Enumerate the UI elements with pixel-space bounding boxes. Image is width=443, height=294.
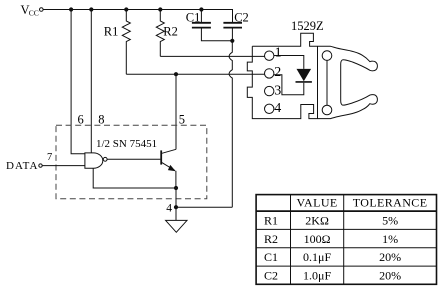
svg-text:R1: R1 bbox=[104, 24, 119, 38]
svg-text:1.0μF: 1.0μF bbox=[303, 268, 331, 282]
svg-text:R1: R1 bbox=[264, 214, 278, 228]
table row C2 bbox=[264, 268, 401, 282]
device pin 2 circle bbox=[265, 69, 274, 78]
wire gate output to base bbox=[107, 158, 160, 160]
svg-text:1: 1 bbox=[275, 46, 282, 61]
node C1 rail junction bbox=[199, 7, 203, 11]
terminal DATA bbox=[39, 164, 42, 167]
device pin 4 circle bbox=[265, 104, 274, 113]
transistor Q1 bbox=[161, 149, 176, 188]
label Vcc bbox=[21, 3, 39, 18]
resistor R2 bbox=[156, 10, 164, 57]
wire gate bottom stub bbox=[93, 168, 176, 188]
gate U1 1/2 SN75451 NAND bbox=[85, 153, 107, 168]
svg-text:1/2 SN 75451: 1/2 SN 75451 bbox=[96, 138, 157, 150]
device 1529Z body right edge bbox=[317, 46, 319, 118]
svg-text:2KΩ: 2KΩ bbox=[305, 214, 329, 228]
node pin6 rail junction bbox=[69, 7, 73, 11]
wire R2 to pin1 bbox=[160, 55, 264, 57]
wire pin4 to C2 ground line bbox=[176, 206, 232, 208]
svg-text:C1: C1 bbox=[264, 250, 278, 264]
svg-text:6: 6 bbox=[78, 113, 84, 127]
capacitor C1 bbox=[192, 10, 232, 41]
power Vcc terminal bbox=[40, 8, 44, 12]
wire emitter to pin4 bbox=[175, 188, 177, 220]
svg-text:VALUE: VALUE bbox=[297, 196, 338, 210]
svg-text:2: 2 bbox=[274, 65, 281, 80]
table grid bbox=[256, 195, 436, 285]
svg-text:TOLERANCE: TOLERANCE bbox=[353, 196, 428, 210]
node R1 rail junction bbox=[124, 7, 128, 11]
diode D1 bbox=[296, 69, 312, 82]
svg-text:4: 4 bbox=[274, 101, 281, 116]
svg-text:1529Z: 1529Z bbox=[291, 19, 324, 33]
svg-text:8: 8 bbox=[98, 113, 104, 127]
svg-text:DATA: DATA bbox=[6, 160, 38, 172]
table row C1 bbox=[264, 250, 401, 264]
ground bbox=[166, 220, 187, 232]
svg-text:5%: 5% bbox=[382, 214, 398, 228]
table row R2 bbox=[264, 232, 398, 246]
svg-text:R2: R2 bbox=[163, 24, 178, 38]
wire pin8 vertical bbox=[90, 10, 92, 153]
svg-text:1%: 1% bbox=[382, 232, 398, 246]
device 1529Z body outline bbox=[247, 33, 317, 118]
svg-text:100Ω: 100Ω bbox=[304, 232, 331, 246]
wire C2 junction to ground with hops bbox=[229, 41, 232, 207]
svg-text:20%: 20% bbox=[379, 250, 401, 264]
device pin 1 circle bbox=[265, 51, 274, 60]
svg-text:5: 5 bbox=[179, 113, 185, 127]
svg-text:0.1μF: 0.1μF bbox=[303, 250, 331, 264]
svg-text:7: 7 bbox=[47, 152, 52, 163]
capacitor C2 bbox=[223, 10, 242, 41]
wire R1 to pin2 bbox=[126, 73, 264, 75]
node pin8 rail junction bbox=[89, 7, 93, 11]
node C1 C2 bottom junction bbox=[230, 39, 234, 43]
resistor R1 bbox=[122, 10, 130, 75]
dashed box SN75451 bbox=[56, 125, 207, 198]
svg-text:4: 4 bbox=[166, 203, 172, 215]
svg-text:3: 3 bbox=[274, 84, 281, 99]
device pin 3 circle bbox=[265, 86, 274, 95]
wire diode cathode to pin2 bbox=[274, 75, 304, 95]
wire pin6 vertical bbox=[71, 10, 85, 154]
node R2 rail junction bbox=[158, 7, 162, 11]
wire Vcc top rail bbox=[43, 10, 232, 23]
wire pin1 to diode anode bbox=[274, 56, 304, 69]
svg-text:R2: R2 bbox=[264, 232, 278, 246]
wire grip pivot link bbox=[326, 60, 328, 105]
device grip pivot circles bbox=[322, 51, 332, 61]
svg-text:C2: C2 bbox=[234, 11, 249, 25]
svg-text:20%: 20% bbox=[379, 268, 401, 282]
device grip outline bbox=[318, 46, 378, 118]
table row R1 bbox=[264, 214, 398, 228]
svg-text:C1: C1 bbox=[186, 11, 201, 25]
wire DATA input bbox=[42, 165, 85, 167]
node collector junction bbox=[174, 72, 178, 76]
svg-text:C2: C2 bbox=[264, 268, 278, 282]
wire pin5 collector vertical bbox=[175, 74, 177, 149]
node pin4 junction bbox=[174, 205, 178, 209]
node emitter junction bbox=[174, 186, 178, 190]
svg-text:CC: CC bbox=[29, 9, 39, 18]
